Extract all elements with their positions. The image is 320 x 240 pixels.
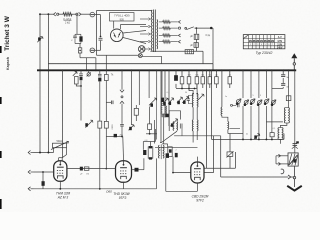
svg-text:1M: 1M <box>86 174 89 176</box>
svg-text:6000: 6000 <box>111 125 113 131</box>
svg-text:Ω60: Ω60 <box>106 190 112 194</box>
svg-text:245V: 245V <box>277 47 283 50</box>
svg-text:Kapsch: Kapsch <box>6 57 10 70</box>
svg-text:9TF2: 9TF2 <box>196 199 204 203</box>
svg-text:50kΩ: 50kΩ <box>57 140 63 143</box>
svg-text:A.V: A.V <box>278 36 282 39</box>
svg-text:1n: 1n <box>225 96 227 98</box>
svg-text:0,1µ: 0,1µ <box>205 34 210 37</box>
svg-text:9TF3: 9TF3 <box>119 196 127 200</box>
svg-text:905: 905 <box>120 18 125 21</box>
svg-text:AZ M 3: AZ M 3 <box>57 196 69 200</box>
svg-text:4n: 4n <box>246 134 248 136</box>
svg-text:Typ 230/42: Typ 230/42 <box>256 51 273 55</box>
svg-text:7 FULL 400i: 7 FULL 400i <box>114 14 130 18</box>
svg-text:Trichet 3 W: Trichet 3 W <box>4 15 11 51</box>
svg-text:2 kΩ: 2 kΩ <box>65 22 70 25</box>
svg-text:U-Abgl.: U-Abgl. <box>63 17 72 21</box>
svg-text:1M: 1M <box>188 74 191 76</box>
